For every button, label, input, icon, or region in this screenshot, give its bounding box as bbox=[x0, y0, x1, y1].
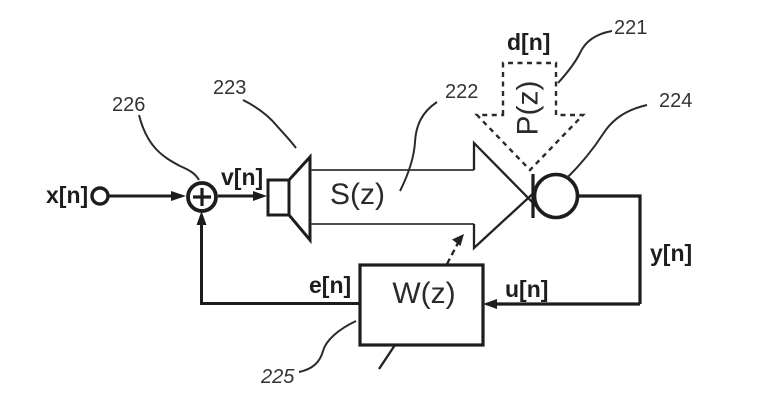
wire mic to y[n] down right bbox=[578, 196, 641, 304]
wire y[n] to W(z) with arrow bbox=[494, 302, 640, 305]
leader 223 bbox=[243, 100, 296, 148]
leader 225 bbox=[299, 321, 356, 372]
leader 222 bbox=[400, 102, 437, 191]
leader 226 bbox=[139, 115, 199, 180]
microphone bar bbox=[531, 174, 534, 218]
svg-text:P(z): P(z) bbox=[511, 81, 544, 136]
svg-text:222: 222 bbox=[445, 81, 478, 103]
leader 224 bbox=[567, 105, 647, 178]
mic circle 224 bbox=[535, 175, 578, 218]
W(z) box bbox=[360, 265, 483, 345]
speaker 223 bbox=[268, 180, 289, 215]
big arrow bottom barb bbox=[474, 189, 538, 248]
svg-text:e[n]: e[n] bbox=[309, 272, 351, 298]
svg-text:y[n]: y[n] bbox=[650, 240, 692, 266]
svg-text:226: 226 bbox=[112, 94, 145, 116]
summing junction adder bbox=[188, 183, 216, 211]
acoustic path S(z) top line bbox=[311, 169, 474, 171]
svg-text:u[n]: u[n] bbox=[505, 276, 548, 302]
acoustic path S(z) bottom line bbox=[311, 223, 474, 225]
svg-text:S(z): S(z) bbox=[330, 178, 385, 211]
input node bbox=[92, 188, 108, 204]
svg-text:x[n]: x[n] bbox=[46, 182, 88, 208]
leader 221 bbox=[558, 31, 612, 83]
adaptation arrow dashed segment above W(z) bbox=[447, 243, 458, 264]
wire W(z) to summer feedback bbox=[202, 220, 361, 304]
svg-text:W(z): W(z) bbox=[392, 277, 455, 310]
svg-text:224: 224 bbox=[659, 90, 692, 112]
big arrow top barb bbox=[474, 143, 542, 212]
svg-text:221: 221 bbox=[614, 17, 647, 39]
svg-text:d[n]: d[n] bbox=[507, 29, 550, 55]
adaptation arrow solid segment below W(z) bbox=[379, 345, 395, 369]
wire summer to speaker bbox=[218, 195, 256, 198]
svg-text:225: 225 bbox=[260, 366, 295, 388]
svg-text:223: 223 bbox=[213, 77, 246, 99]
wire x[n] to summer bbox=[109, 195, 174, 198]
svg-text:v[n]: v[n] bbox=[221, 164, 263, 190]
dashed P(z) arrow outline bbox=[477, 63, 583, 170]
